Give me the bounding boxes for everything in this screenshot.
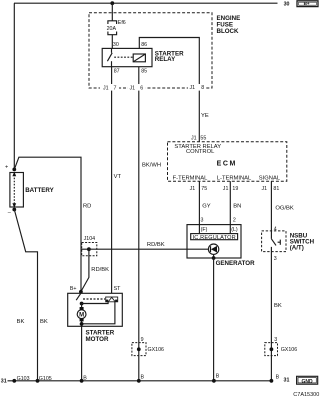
svg-text:B+: B+	[70, 286, 77, 292]
svg-text:GND: GND	[302, 379, 314, 385]
splice GX106 (middle)	[132, 337, 164, 356]
svg-text:ST: ST	[114, 286, 122, 292]
wire J104 down to starter B+	[81, 249, 89, 291]
battery positive node	[12, 168, 16, 172]
svg-text:GX106: GX106	[148, 347, 165, 353]
svg-text:RD/BK: RD/BK	[91, 267, 109, 273]
svg-text:G105: G105	[39, 376, 52, 382]
NSBU switch label	[290, 232, 315, 251]
starter motor B+ node	[79, 290, 83, 294]
wire ECM signal OG/BK to NSBU	[270, 181, 272, 239]
relay contact	[107, 48, 112, 66]
svg-text:RD: RD	[83, 204, 91, 210]
starter linkage dashed	[83, 298, 105, 300]
wire fuse feed down	[111, 3, 113, 21]
svg-text:(F): (F)	[201, 227, 208, 233]
svg-text:6: 6	[140, 85, 143, 91]
svg-text:BK: BK	[40, 319, 48, 325]
svg-text:7: 7	[114, 85, 117, 91]
wire starter to ground bus	[81, 326, 83, 381]
svg-text:GX106: GX106	[281, 347, 298, 353]
wire ECM L-terminal BN	[229, 181, 231, 224]
svg-text:B+: B+	[304, 1, 310, 6]
svg-text:J1: J1	[190, 186, 196, 192]
svg-text:B: B	[216, 373, 220, 379]
svg-text:GY: GY	[202, 204, 211, 210]
wire generator to ground bus	[213, 258, 215, 381]
svg-text:J1: J1	[191, 136, 197, 142]
svg-text:87: 87	[114, 68, 120, 74]
splice GX106 (right)	[265, 337, 297, 356]
ECM dashed box	[168, 142, 287, 181]
starter motor label	[86, 330, 115, 344]
svg-text:19: 19	[232, 186, 238, 192]
svg-text:B: B	[83, 375, 87, 381]
svg-text:BN: BN	[233, 204, 241, 210]
wire relay 85 down to ground splice	[138, 67, 140, 381]
starter internal wiring	[80, 302, 115, 327]
svg-text:J1: J1	[190, 85, 196, 91]
svg-text:BK/WH: BK/WH	[142, 163, 161, 169]
svg-text:C7A15300: C7A15300	[293, 392, 319, 398]
relay linkage dashed	[114, 56, 133, 58]
starter motor box	[68, 293, 123, 326]
fuse Ef6 20A	[107, 20, 126, 35]
svg-text:85: 85	[141, 68, 147, 74]
svg-text:YE: YE	[201, 113, 209, 119]
wire relay 86 to ECM pin 55	[139, 38, 199, 142]
wire battery feed horizontal RD	[14, 157, 81, 291]
svg-text:BK: BK	[274, 303, 282, 309]
generator bottom node	[212, 256, 216, 260]
starter contact blade	[76, 293, 81, 300]
splice J104	[81, 236, 97, 256]
NSBU switch contact	[271, 239, 280, 246]
svg-text:B: B	[141, 374, 145, 380]
svg-text:30: 30	[284, 1, 290, 7]
wire battery feed from bus (left frame)	[13, 3, 15, 169]
svg-text:VT: VT	[114, 174, 122, 180]
generator pin stubs F and L	[198, 225, 200, 234]
svg-text:G103: G103	[17, 376, 30, 382]
node GND box	[297, 376, 318, 385]
svg-text:+: +	[5, 164, 8, 170]
node junction fuse feed on bus	[110, 1, 114, 5]
svg-text:3: 3	[274, 256, 277, 262]
svg-text:RD/BK: RD/BK	[147, 242, 165, 248]
svg-text:BLOCK: BLOCK	[217, 28, 240, 35]
svg-text:BK: BK	[17, 319, 25, 325]
engine fuse block label	[217, 15, 241, 35]
svg-text:GENERATOR: GENERATOR	[216, 260, 255, 267]
ECM labels	[173, 144, 281, 182]
svg-text:31: 31	[284, 377, 290, 383]
svg-text:J104: J104	[84, 236, 96, 242]
svg-text:CONTROL: CONTROL	[186, 149, 215, 155]
starter motor bottom node	[80, 322, 84, 326]
ground nodes on bus	[12, 379, 273, 383]
relay coil	[133, 54, 145, 62]
connector J1 labels on fuse block edge	[100, 84, 206, 91]
engine fuse block dashed box	[89, 13, 212, 88]
svg-text:MOTOR: MOTOR	[86, 336, 109, 343]
starter motor M	[77, 307, 86, 321]
svg-text:ECM: ECM	[217, 161, 237, 168]
ECM pin 55 label	[191, 136, 206, 142]
starter relay label	[155, 50, 184, 63]
svg-text:55: 55	[200, 136, 206, 142]
svg-text:3: 3	[201, 217, 204, 223]
wire battery negative split to G105	[14, 210, 37, 381]
generator box	[187, 225, 241, 258]
svg-text:(L): (L)	[231, 227, 238, 233]
svg-text:(A/T): (A/T)	[290, 245, 304, 252]
wire fuse to relay pin 30	[111, 35, 113, 49]
svg-text:OG/BK: OG/BK	[275, 205, 293, 211]
svg-text:75: 75	[201, 186, 207, 192]
svg-text:L-TERMINAL: L-TERMINAL	[217, 176, 252, 182]
svg-text:B: B	[276, 375, 280, 381]
ECM bottom pin labels	[190, 186, 280, 192]
generator diode	[187, 244, 219, 258]
battery negative node	[12, 208, 16, 212]
wire ground bus 31 (bottom)	[8, 380, 272, 382]
svg-text:30: 30	[113, 42, 119, 48]
svg-text:J1: J1	[223, 186, 229, 192]
wire ECM F-terminal GY	[198, 181, 200, 224]
svg-text:Ef6: Ef6	[118, 20, 126, 26]
svg-text:86: 86	[141, 42, 147, 48]
wire NSBU to ground bus BK	[270, 247, 272, 381]
battery	[5, 164, 55, 215]
starter solenoid	[106, 297, 118, 302]
wire J104 to generator RD/BK	[89, 248, 187, 250]
svg-text:81: 81	[273, 186, 279, 192]
svg-text:J1: J1	[262, 186, 268, 192]
svg-text:2: 2	[233, 217, 236, 223]
starter relay box U relay	[102, 48, 152, 66]
wire B+ bus 30 (top)	[14, 2, 278, 4]
svg-text:M: M	[79, 313, 84, 319]
IC regulator box	[191, 234, 238, 241]
svg-text:J1: J1	[130, 85, 136, 91]
svg-text:4: 4	[274, 226, 277, 232]
svg-text:8: 8	[201, 85, 204, 91]
svg-text:IC.REGULATOR: IC.REGULATOR	[193, 235, 236, 241]
svg-text:20A: 20A	[107, 26, 117, 32]
svg-text:RELAY: RELAY	[155, 56, 176, 63]
NSBU switch dashed box	[262, 231, 286, 252]
svg-text:F-TERMINAL: F-TERMINAL	[173, 176, 209, 182]
node B+ box	[297, 1, 318, 7]
svg-text:SIGNAL: SIGNAL	[259, 176, 281, 182]
svg-text:J1: J1	[103, 85, 109, 91]
svg-text:BATTERY: BATTERY	[25, 187, 54, 194]
svg-text:31: 31	[1, 378, 7, 384]
wire relay 87 down to starter ST	[111, 67, 113, 298]
